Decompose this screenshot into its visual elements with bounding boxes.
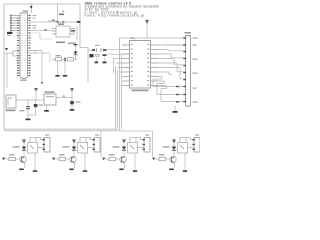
LED cluster (88, 49, 93, 51)
relay RL4 body (178, 143, 188, 154)
ground relay block 3 (133, 170, 137, 172)
VCC symbol block 4 (172, 139, 175, 140)
connector CN1 body (phone connector, left) (20, 13, 28, 79)
output connector CN3 body (44, 138, 50, 153)
wire input to base resistor block 4 (155, 158, 159, 160)
middle cluster: VCC (74, 44, 78, 45)
VCC symbol block 3 (122, 139, 125, 140)
IC2 bottom label (56, 42, 65, 44)
output connector CN5 pins (143, 139, 146, 150)
wire to box (5, 52, 13, 54)
wires in row (52, 59, 77, 61)
wire relay coil to ground block 4 (184, 153, 186, 170)
CN1 bottom label (20, 80, 27, 81)
+5v label top (59, 14, 64, 16)
IC2 label (58, 23, 64, 25)
base resistor R2 label (59, 154, 65, 155)
diode D5 label (163, 146, 170, 147)
wire VCC to diode block 2 (73, 143, 75, 146)
CN2 right labels (193, 38, 198, 103)
wire VCC to diode block 4 (173, 143, 175, 146)
relay RL2 contact wires (80, 137, 91, 142)
output connector CN4 body (94, 138, 100, 153)
CN1 net labels right faint (33, 15, 37, 54)
pad wires to CN1 (11, 16, 17, 31)
input net arrow block 1 (2, 158, 5, 161)
ground transistor Q1 (19, 169, 23, 171)
IC2 pins (52, 29, 74, 35)
relay driver block 1 (2, 134, 50, 172)
regulator 7805 (44, 94, 56, 105)
IC3 label top (130, 38, 135, 39)
CN2 connector body (186, 36, 191, 107)
small box component left (13, 51, 20, 56)
relay RL1 contact wires (30, 137, 41, 142)
net arrows near CN2 (176, 86, 179, 87)
transistor Q2 (70, 156, 76, 162)
crystal caps (95, 62, 99, 64)
CN1 label (23, 10, 29, 11)
diode D3 (72, 147, 76, 150)
diode D4 (122, 147, 126, 150)
wire CN1 pin to IC2 (31, 30, 52, 32)
transistor mark (64, 58, 66, 61)
relay RL2 body (78, 143, 88, 154)
diode D2 label (13, 146, 20, 147)
relay RL1 switch lever (30, 145, 34, 149)
pads dots (10, 15, 12, 31)
base resistor R3 (109, 157, 116, 160)
wire emitter to ground block 1 (24, 163, 26, 169)
wire vertical x80 (79, 4, 81, 48)
label above led (95, 45, 100, 46)
relay RL4 contact wires (180, 137, 191, 142)
wire emitter to ground block 3 (124, 163, 126, 169)
wire diode to collector block 3 (123, 150, 125, 155)
wire diode to collector block 4 (173, 150, 175, 155)
VCC above IC3 (145, 20, 148, 21)
regulator gnd (46, 105, 48, 110)
svg-text:home: http://www.serasidis.gr: home: http://www.serasidis.gr (85, 14, 146, 18)
relay RL2 switch lever (80, 145, 84, 149)
base resistor R1 (9, 157, 16, 160)
VCC symbol block 2 (72, 139, 75, 140)
wire staircase IC3 to CN2 (153, 45, 184, 102)
wire bottom bus 2 (4, 130, 119, 132)
cap elco input (35, 100, 37, 104)
output connector CN6 pins (193, 139, 196, 150)
wire vcc to CN2 pin1 (120, 37, 184, 39)
VCC T at x72 (70, 88, 73, 89)
wire relay to connector block 1 (38, 147, 45, 149)
wire contact to connector block 2 (91, 137, 93, 139)
relay driver block 3 (102, 134, 150, 172)
IC3 label below (132, 90, 149, 92)
wire jack to regulator (16, 99, 44, 101)
relay RL3 switch lever (130, 145, 134, 149)
output connector CN3 pins (43, 139, 46, 150)
base resistor R1 label (9, 154, 15, 155)
output connector CN6 body (194, 138, 200, 153)
wire VCC rail top (4, 3, 80, 5)
stubs to grounds (58, 61, 66, 75)
relay RL1 body (28, 143, 38, 154)
diode D down (74, 52, 78, 55)
diode D3 label (63, 146, 70, 147)
wire relay coil to ground block 1 (34, 153, 36, 170)
ground transistor Q4 (169, 169, 173, 171)
wire relay coil to ground block 3 (134, 153, 136, 170)
wire resistor to base block 4 (166, 158, 170, 160)
wire VCC rail left (3, 4, 5, 130)
ground transistor Q2 (69, 169, 73, 171)
base resistor R2 (59, 157, 66, 160)
wire resistor to base block 2 (66, 158, 70, 160)
small marks near IC2 top (52, 20, 55, 21)
wire CN1 pin to x80 (31, 21, 80, 23)
base resistor R4 label (159, 154, 165, 155)
relay driver block 2 (52, 134, 100, 172)
relay RL3 body (128, 143, 138, 154)
diode D4 label (113, 146, 120, 147)
wire diode to collector block 1 (23, 150, 25, 155)
wire CN1 pin row 33 (31, 33, 52, 39)
second box (68, 58, 74, 61)
transistor Q1 (20, 156, 26, 162)
phone pad column (10, 14, 12, 31)
IC3 pins right (151, 45, 159, 86)
wire relay to connector block 2 (88, 147, 95, 149)
net arrow left mid (5, 48, 8, 51)
wire emitter to ground block 2 (74, 163, 76, 169)
VCC symbol at CN1 top (30, 9, 32, 13)
VCC T at x36 (34, 88, 37, 89)
resistor R box (56, 58, 62, 61)
wire top to IC2 (48, 4, 58, 21)
output connector CN3 label (45, 134, 49, 135)
junction blob on wire (77, 21, 81, 23)
input net arrow block 3 (102, 158, 105, 161)
wire contact to connector block 4 (191, 137, 193, 139)
base resistor R3 label (109, 154, 115, 155)
transistor Q4 (170, 156, 176, 162)
wire relay coil to ground block 2 (84, 153, 86, 170)
output connector CN5 label (145, 134, 149, 135)
wire diode to collector block 2 (73, 150, 75, 155)
wire CN1 pin to x50 (31, 53, 50, 62)
wire row2 to CN2 (163, 44, 184, 46)
wire bottom bus (4, 128, 117, 130)
crystal row (90, 54, 94, 57)
wire VCC to diode block 1 (23, 143, 25, 146)
ground relay block 2 (83, 170, 87, 172)
relay RL4 switch lever (180, 145, 184, 149)
CN2 label (185, 32, 192, 34)
IC2 box (56, 26, 70, 37)
diode D5 (172, 147, 176, 150)
transistor Q3 (120, 156, 126, 162)
CN1 pin numbers inside (21, 16, 27, 71)
wire emitter to ground block 4 (174, 163, 176, 169)
op IC3 body (microcontroller) (130, 41, 151, 89)
base resistor R4 (159, 157, 166, 160)
CN1 pins right (28, 16, 31, 76)
GND label blob (7, 32, 12, 34)
CN1 pins left (17, 16, 20, 76)
ground relay block 1 (33, 170, 37, 172)
cap 100n (27, 100, 29, 106)
bus vertical lines (116, 38, 120, 131)
junction ticks on y22 wire (57, 21, 59, 23)
CN2 pins (183, 37, 186, 102)
wire input to base resistor block 3 (105, 158, 109, 160)
output connector CN6 label (195, 134, 199, 135)
power supply: DC jack (6, 95, 16, 108)
IC3 pin numbers (131, 44, 149, 86)
relay RL3 contact wires (130, 137, 141, 142)
wire bus to block3 (100, 131, 102, 157)
wire corner 80-88 (80, 48, 88, 83)
ground transistor Q3 (119, 169, 123, 171)
wire resistor to base block 3 (116, 158, 120, 160)
IC2 right cap (73, 29, 75, 35)
wire contact to connector block 3 (141, 137, 143, 139)
CN1 pin number marks outside (17, 15, 30, 76)
wire relay to connector block 3 (138, 147, 145, 149)
wires bus to IC3 left pins (114, 50, 123, 130)
IC3 pins left (122, 45, 130, 86)
diode D2 (22, 147, 26, 150)
wire contact to connector block 1 (41, 137, 43, 139)
cap elco out (70, 101, 74, 104)
ground 2 (63, 75, 67, 77)
VCC symbol block 1 (22, 139, 25, 140)
wire bus to block4 (119, 131, 153, 157)
wire input to base resistor block 1 (5, 158, 9, 160)
output connector CN4 label (95, 134, 99, 135)
wire resistor to base block 1 (16, 158, 20, 160)
input net arrow block 2 (52, 158, 55, 161)
relay driver block 4 (152, 134, 200, 172)
wire long vertical left (6, 53, 8, 88)
wire input to base resistor block 2 (55, 158, 59, 160)
wire reg out (56, 97, 72, 99)
ground 1 (55, 75, 59, 77)
CN2 ground (174, 106, 176, 111)
output connector CN5 body (144, 138, 150, 153)
output connector CN4 pins (93, 139, 96, 150)
wire VCC to diode block 3 (123, 143, 125, 146)
ground relay block 4 (183, 170, 187, 172)
input net arrow block 4 (152, 158, 155, 161)
wire relay to connector block 4 (188, 147, 195, 149)
label above resistor (56, 55, 61, 56)
wire CN1 pin to x42 (31, 51, 42, 83)
title text block (85, 1, 159, 17)
